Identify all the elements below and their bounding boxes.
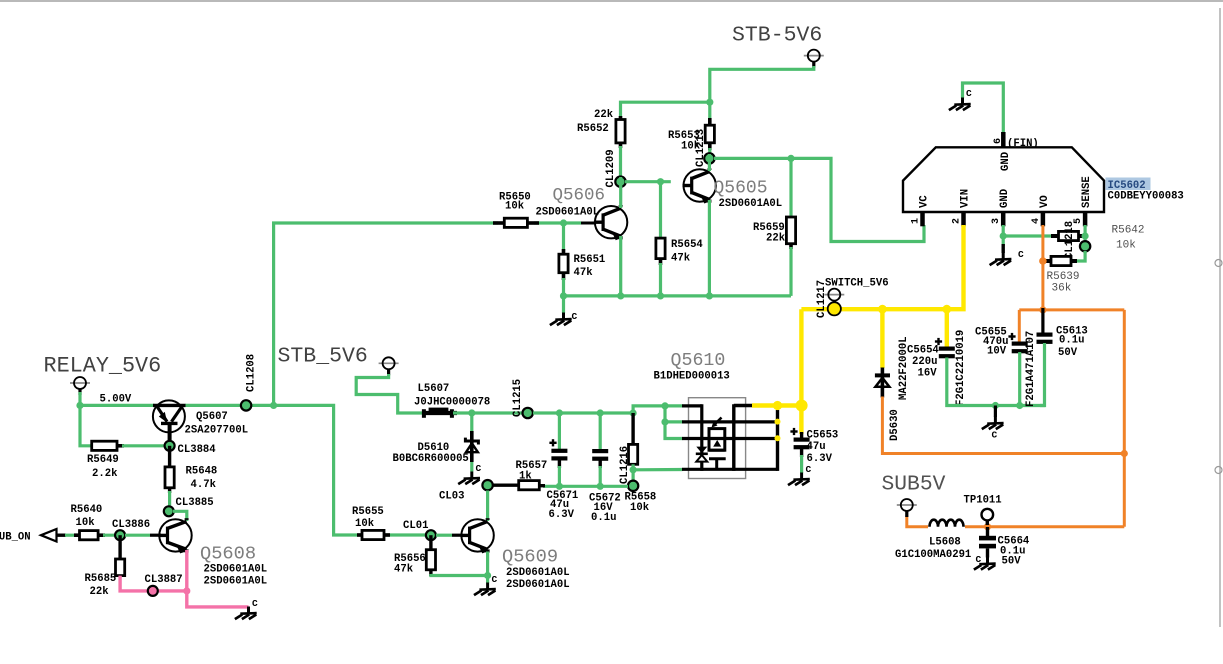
node CL3886: [112, 519, 150, 540]
svg-text:10k: 10k: [76, 517, 96, 529]
label R5655 10k: [352, 506, 384, 530]
svg-text:CL01: CL01: [403, 520, 428, 532]
label 5.00V: [100, 394, 132, 406]
wire R5640 to CL3886: [103, 534, 120, 537]
wire STB-5V6 top feed: [710, 66, 814, 120]
transistor Q5608: [158, 518, 191, 553]
label R5652 22k: [577, 109, 614, 135]
label Q5609 part: [506, 567, 570, 591]
wire R5659 to rail: [789, 247, 792, 296]
node small yellow 438: [775, 435, 781, 441]
svg-text:2SD0601A0L: 2SD0601A0L: [204, 564, 268, 576]
net label STB_5V6 mid: [278, 345, 368, 369]
resistor R5685: [116, 535, 125, 575]
wire Q5606 emitter: [619, 236, 622, 296]
label R5648 4.7k: [186, 466, 218, 492]
svg-text:CL3886: CL3886: [112, 519, 150, 531]
node CL01: [403, 520, 436, 540]
label R5653 10k: [668, 130, 701, 153]
wire C5653 gnd: [800, 455, 803, 473]
transistor Q5606: [594, 205, 627, 240]
inductor L5607: [422, 408, 457, 418]
svg-text:CL3884: CL3884: [178, 444, 217, 456]
wire CL01 to base: [436, 534, 462, 537]
node junction pin3: [1000, 232, 1007, 239]
svg-text:B0BC6R600005: B0BC6R600005: [393, 453, 469, 465]
node junction at 709,102: [706, 99, 713, 106]
node junction rail R5651: [560, 292, 567, 299]
svg-text:10k: 10k: [505, 201, 525, 213]
resistor R5659: [786, 158, 795, 249]
node junction yellow D5630: [878, 305, 887, 314]
node junction rail Q5605: [706, 292, 713, 299]
svg-text:10k: 10k: [630, 502, 650, 514]
wire Q5606 base from R5650: [534, 221, 596, 224]
node junction bottom C5671: [556, 483, 563, 490]
svg-text:VIN: VIN: [960, 189, 972, 208]
label Q5608: [200, 543, 256, 565]
node junction bottom C5672: [597, 483, 604, 490]
svg-text:Q5608: Q5608: [200, 543, 256, 565]
wire R5651 to rail: [562, 278, 565, 296]
wire yellow down-left: [799, 309, 803, 434]
pin 3 stub GND: [991, 189, 1011, 226]
pin 1 stub VC: [911, 195, 931, 227]
svg-text:VO: VO: [1039, 195, 1051, 208]
node junction yellow out2: [796, 400, 808, 412]
label F2G1C2210019 vertical: [955, 330, 967, 406]
wire sense vertical: [1083, 225, 1086, 242]
net label RELAY_5V6: [44, 354, 162, 379]
node CL3884: [165, 441, 217, 456]
wire collector bus CL1213 to VC: [714, 158, 924, 241]
node CL3885: [164, 497, 214, 516]
wire R5658 to Q5610 in4: [633, 468, 682, 471]
test point CL03: [439, 480, 493, 503]
label R5654 47k: [671, 239, 703, 265]
ground D5610: [458, 463, 481, 484]
resistor R5655: [357, 530, 390, 539]
svg-text:C0DBEYY00083: C0DBEYY00083: [1108, 191, 1184, 203]
wire Q5605 emitter: [708, 200, 711, 296]
svg-text:1k: 1k: [519, 471, 532, 483]
svg-text:C: C: [992, 430, 998, 441]
svg-text:2SA207700L: 2SA207700L: [185, 425, 249, 437]
wire Q5610 in2: [665, 406, 683, 422]
wire R5648 to CL3885: [168, 491, 171, 506]
svg-text:SWITCH_5V6: SWITCH_5V6: [825, 278, 889, 290]
svg-text:22k: 22k: [594, 109, 614, 121]
test point CL1215: [512, 379, 533, 418]
svg-text:36k: 36k: [1052, 283, 1072, 295]
label R5650 10k: [499, 192, 531, 213]
svg-text:STB-5V6: STB-5V6: [732, 24, 822, 48]
svg-text:C: C: [572, 311, 578, 322]
ground rail C: [550, 311, 578, 325]
svg-text:GND: GND: [1000, 152, 1012, 171]
resistor R5649: [80, 405, 124, 450]
node junction gnd rail: [992, 402, 999, 409]
svg-text:D5630: D5630: [889, 409, 901, 441]
top border line: [0, 0, 1223, 2]
wire CL3886 to Q5608 base: [125, 534, 161, 537]
wire Q5609 emitter: [486, 552, 489, 584]
svg-text:10k: 10k: [1116, 239, 1136, 251]
wire CL03 to collector: [486, 491, 489, 522]
svg-text:CL1213: CL1213: [695, 129, 707, 167]
power port SUB5V: [897, 499, 917, 517]
wire orange to C5655: [1018, 310, 1021, 342]
node junction C5672: [597, 409, 604, 416]
svg-text:50V: 50V: [1002, 556, 1022, 568]
wire pin6 to ground elbow: [963, 83, 1004, 135]
node junction R5658 bottom: [630, 466, 637, 473]
label L5607 part: [414, 383, 490, 409]
pin 2 stub VIN: [952, 189, 972, 226]
svg-text:2SD0601A0L: 2SD0601A0L: [204, 576, 268, 588]
test point TP1011: [964, 495, 1002, 526]
svg-text:10V: 10V: [987, 346, 1007, 358]
label Q5606 part 2SD0601A0L: [536, 207, 600, 219]
svg-text:220u: 220u: [912, 356, 937, 368]
svg-text:R5654: R5654: [671, 239, 703, 251]
wire yellow D5630 branch: [880, 309, 884, 368]
wire Q5607 collector black: [168, 432, 171, 446]
mosfet Q5610 package outline: [689, 398, 746, 479]
wire yellow C5654 branch: [945, 309, 949, 348]
svg-text:Q5607: Q5607: [196, 411, 228, 423]
resistor R5657: [492, 481, 545, 490]
wire relay feed: [78, 392, 81, 405]
svg-text:Q5610: Q5610: [671, 351, 726, 371]
right border line: [1215, 8, 1222, 627]
svg-text:C: C: [492, 574, 498, 585]
resistor R5652: [616, 116, 625, 148]
test point CL1208: [241, 354, 258, 411]
label Q5605 part 2SD0601A0L: [719, 198, 783, 210]
net arrow SUB_ON: [0, 529, 66, 544]
node junction C5671: [556, 409, 563, 416]
label R5651 47k: [574, 254, 606, 279]
svg-text:R5640: R5640: [71, 504, 103, 516]
wire orange from D5630: [882, 397, 1124, 454]
label Q5607: [196, 411, 228, 423]
capacitor C5613: [1037, 308, 1088, 359]
svg-text:L5607: L5607: [418, 383, 450, 395]
label R5657 1k: [516, 460, 548, 483]
wire C5613 to gnd rail: [1040, 343, 1045, 406]
power port STB-5V6 top: [804, 50, 824, 68]
wire orange bottom: [907, 516, 1125, 527]
label R5640 10k: [71, 504, 103, 529]
wire pin3 gnd branch: [1002, 225, 1005, 246]
wire yellow Q5610 out: [752, 403, 803, 407]
svg-text:1: 1: [911, 218, 922, 224]
node junction R5659 top: [787, 155, 794, 162]
label D5610 part: [393, 442, 469, 465]
pin 4 stub VO: [1031, 195, 1051, 226]
svg-text:22k: 22k: [90, 586, 110, 598]
net label SUB5V: [882, 473, 946, 497]
label R5639 36k: [1047, 271, 1080, 295]
svg-text:CL03: CL03: [439, 491, 464, 503]
label F2G1A471A107 vertical: [1025, 331, 1037, 407]
svg-text:22k: 22k: [766, 233, 786, 245]
svg-text:Q5606: Q5606: [553, 186, 606, 206]
svg-text:47u: 47u: [807, 441, 826, 453]
label SWITCH_5V6: [825, 278, 889, 290]
svg-text:C: C: [252, 598, 258, 609]
svg-text:4: 4: [1031, 218, 1042, 224]
label R5656 47k: [394, 553, 426, 576]
ground Q5608: [235, 598, 258, 619]
label C5653 47u 6.3V: [807, 430, 839, 466]
capacitor C5672: [592, 413, 608, 468]
node small yellow 421: [775, 419, 781, 425]
ground pin3: [990, 244, 1024, 265]
resistor R5658: [629, 413, 638, 464]
node junction R5651 top: [560, 219, 567, 226]
wire C5671 down: [558, 466, 561, 486]
node junction orange TP: [984, 523, 991, 530]
wire R5656 to emitter: [431, 574, 488, 576]
zener diode D5610: [465, 413, 478, 472]
ground caps C: [982, 406, 1004, 441]
node CL1217: [828, 302, 841, 315]
inductor L5608: [928, 520, 965, 532]
wire C5655 to gnd rail: [1018, 352, 1021, 406]
mosfet Q5610 internals: [682, 404, 778, 471]
wire pink R5685: [120, 576, 187, 591]
wire pin3 to R5642: [1003, 234, 1053, 237]
label Q5607 part: [185, 425, 249, 437]
wire CL1209 to Q5605 base: [625, 180, 671, 183]
svg-text:CL1215: CL1215: [512, 379, 524, 417]
wire Q5610 in3: [665, 422, 683, 439]
wire relay rail: [80, 404, 155, 407]
wire L5607 to CL1215: [453, 411, 522, 414]
svg-text:2SD0601A0L: 2SD0601A0L: [719, 198, 783, 210]
wire VO orange: [1041, 225, 1044, 310]
diode D5630: [875, 336, 910, 441]
node junction sense: [1082, 232, 1089, 239]
node junction at 660.5,181.7: [657, 178, 664, 185]
wire VIN yellow: [801, 225, 963, 309]
label IC5602 highlighted: [1106, 178, 1151, 193]
node junction yellow out1: [773, 401, 782, 410]
node junction pink: [183, 587, 190, 594]
ground Q5609: [474, 574, 498, 595]
node junction orange bus: [1039, 306, 1046, 313]
capacitor C5655: [975, 327, 1028, 358]
svg-text:2SD0601A0L: 2SD0601A0L: [506, 579, 570, 591]
svg-text:C5654: C5654: [907, 345, 939, 357]
svg-text:4.7k: 4.7k: [191, 479, 217, 491]
wire bottom cap rail: [543, 485, 628, 488]
node junction yellow C5654: [942, 305, 951, 314]
resistor R5651: [559, 223, 568, 280]
wire CL3885 to Q5608 collector: [173, 511, 187, 521]
svg-text:B1DHED000013: B1DHED000013: [654, 371, 730, 383]
wire R5649 to CL3884: [122, 444, 170, 447]
wire C5672 down: [599, 466, 602, 486]
node junction rail R5654: [657, 292, 664, 299]
node junction orange 453: [1121, 450, 1128, 457]
svg-text:SUB_ON: SUB_ON: [0, 532, 31, 544]
svg-text:R5639: R5639: [1047, 271, 1080, 283]
svg-text:CL1218: CL1218: [1064, 221, 1076, 259]
label R5659 22k: [753, 222, 786, 245]
wire orange right down: [1123, 310, 1126, 527]
svg-text:CL1209: CL1209: [605, 149, 617, 187]
label Q5606: [553, 186, 606, 206]
wire R5653 to CL1213: [708, 148, 711, 155]
wire R5654 to rail: [659, 263, 662, 296]
label Q5610 part: [654, 371, 730, 383]
wire R5658 bottom: [631, 464, 634, 481]
wire sense to R5639: [1076, 251, 1085, 261]
test point CL1213: [695, 129, 715, 167]
svg-text:CL1217: CL1217: [816, 280, 828, 318]
label C5654 220u 16V: [907, 345, 939, 380]
svg-text:GND: GND: [999, 189, 1011, 208]
svg-text:C: C: [966, 88, 972, 99]
node junction relay: [76, 402, 83, 409]
svg-text:10k: 10k: [355, 518, 375, 530]
resistor R5639: [1046, 256, 1077, 265]
label C5672 16V 0.1u: [589, 493, 621, 525]
wire jog up to Q5610: [633, 406, 682, 413]
svg-text:STB_5V6: STB_5V6: [278, 345, 368, 369]
svg-text:Q5605: Q5605: [714, 179, 768, 199]
capacitor C5664: [979, 527, 1030, 568]
transistor Q5607: [153, 400, 186, 446]
node junction rail Q5606: [617, 292, 624, 299]
label Q5605: [714, 179, 768, 199]
wire Q5605 collector: [708, 154, 711, 171]
svg-text:R5649: R5649: [87, 454, 119, 466]
net label STB-5V6 (top): [732, 24, 822, 48]
capacitor C5654: [935, 338, 955, 358]
svg-text:2: 2: [952, 218, 963, 224]
label Q5610: [671, 351, 726, 371]
resistor R5653: [705, 118, 714, 150]
svg-text:2SD0601A0L: 2SD0601A0L: [506, 567, 570, 579]
wire relay rail right: [185, 405, 362, 535]
label R5685 22k: [85, 573, 117, 598]
svg-text:47k: 47k: [574, 267, 594, 279]
svg-text:J0JHC0000078: J0JHC0000078: [414, 397, 490, 409]
svg-text:C: C: [1018, 249, 1024, 260]
power port SWITCH_5V6: [816, 280, 844, 318]
svg-text:CL1216: CL1216: [619, 446, 631, 484]
node junction D5610: [468, 409, 475, 416]
svg-text:F2G1C2210019: F2G1C2210019: [955, 330, 967, 406]
node junction Q5609 emitter: [484, 572, 491, 579]
label R5649 2.2k: [87, 454, 119, 480]
label R5658 10k: [625, 492, 657, 515]
label L5608 part: [895, 537, 971, 562]
svg-text:R5685: R5685: [85, 573, 117, 585]
svg-text:CL3885: CL3885: [176, 497, 214, 509]
test point CL1216: [619, 446, 638, 491]
power port RELAY_5V6: [70, 377, 90, 395]
op-amp IC5602 body: [903, 147, 1104, 212]
wire pink emitter: [187, 550, 249, 607]
svg-text:SENSE: SENSE: [1081, 176, 1093, 208]
resistor R5648: [165, 446, 174, 493]
svg-text:C5653: C5653: [807, 430, 839, 442]
ground C5653: [788, 464, 812, 485]
svg-text:(FIN): (FIN): [1007, 138, 1039, 150]
resistor R5654: [656, 182, 665, 265]
svg-text:F2G1A471A107: F2G1A471A107: [1025, 331, 1037, 407]
svg-text:G1C100MA0291: G1C100MA0291: [895, 549, 971, 561]
svg-text:0.1u: 0.1u: [1059, 335, 1084, 347]
ground near pin6: [949, 88, 972, 110]
node CL3887: [145, 574, 183, 596]
svg-text:2SD0601A0L: 2SD0601A0L: [536, 207, 600, 219]
resistor R5642: [1051, 231, 1083, 240]
wire CL1215 right: [533, 411, 633, 414]
transistor Q5605: [683, 168, 716, 203]
power port STB mid: [379, 357, 399, 375]
svg-text:5.00V: 5.00V: [100, 394, 132, 406]
node junction Q5610 in2: [661, 418, 668, 425]
node junction R5658 top: [630, 409, 637, 416]
wire R5655 to CL01: [384, 533, 431, 536]
svg-text:TP1011: TP1011: [964, 495, 1002, 507]
resistor R5650: [493, 218, 539, 227]
test point CL1218: [1064, 221, 1090, 259]
transistor Q5609: [460, 518, 493, 553]
node junction VO R5639: [1039, 257, 1047, 265]
svg-text:0.1u: 0.1u: [591, 512, 616, 524]
svg-text:L5608: L5608: [929, 537, 961, 549]
test point CL1209: [605, 149, 626, 187]
svg-text:2.2k: 2.2k: [92, 468, 118, 480]
svg-text:6.3V: 6.3V: [549, 509, 575, 521]
label R5642 10k: [1112, 225, 1145, 252]
ground C5664: [974, 549, 996, 570]
svg-text:RELAY_5V6: RELAY_5V6: [44, 354, 162, 379]
svg-text:C: C: [976, 554, 982, 565]
wire emitter ground rail: [564, 294, 792, 297]
svg-text:R5651: R5651: [574, 254, 606, 266]
svg-text:50V: 50V: [1058, 347, 1078, 359]
svg-text:47k: 47k: [394, 564, 414, 576]
svg-text:47k: 47k: [671, 253, 691, 265]
label Q5608 part: [204, 564, 268, 588]
wire STB mid feed: [356, 374, 425, 413]
svg-text:R5655: R5655: [352, 506, 384, 518]
svg-text:6: 6: [993, 138, 1004, 144]
pin 6 stub: [1001, 132, 1006, 147]
node junction Q5610 in1: [661, 402, 668, 409]
pin 6 labels: [993, 138, 1039, 171]
node junction left vert: [270, 402, 277, 409]
svg-text:CL3887: CL3887: [145, 574, 183, 586]
svg-text:C: C: [476, 463, 482, 474]
capacitor C5671: [549, 413, 567, 468]
wire rail to ground: [562, 296, 565, 313]
node junction gnd rail c5655: [1016, 402, 1023, 409]
svg-text:R5642: R5642: [1112, 225, 1145, 237]
wire Q5606 collector: [619, 177, 622, 208]
svg-text:R5648: R5648: [186, 466, 218, 478]
label C0DBEYY00083: [1108, 191, 1184, 203]
resistor R5656: [426, 535, 435, 576]
